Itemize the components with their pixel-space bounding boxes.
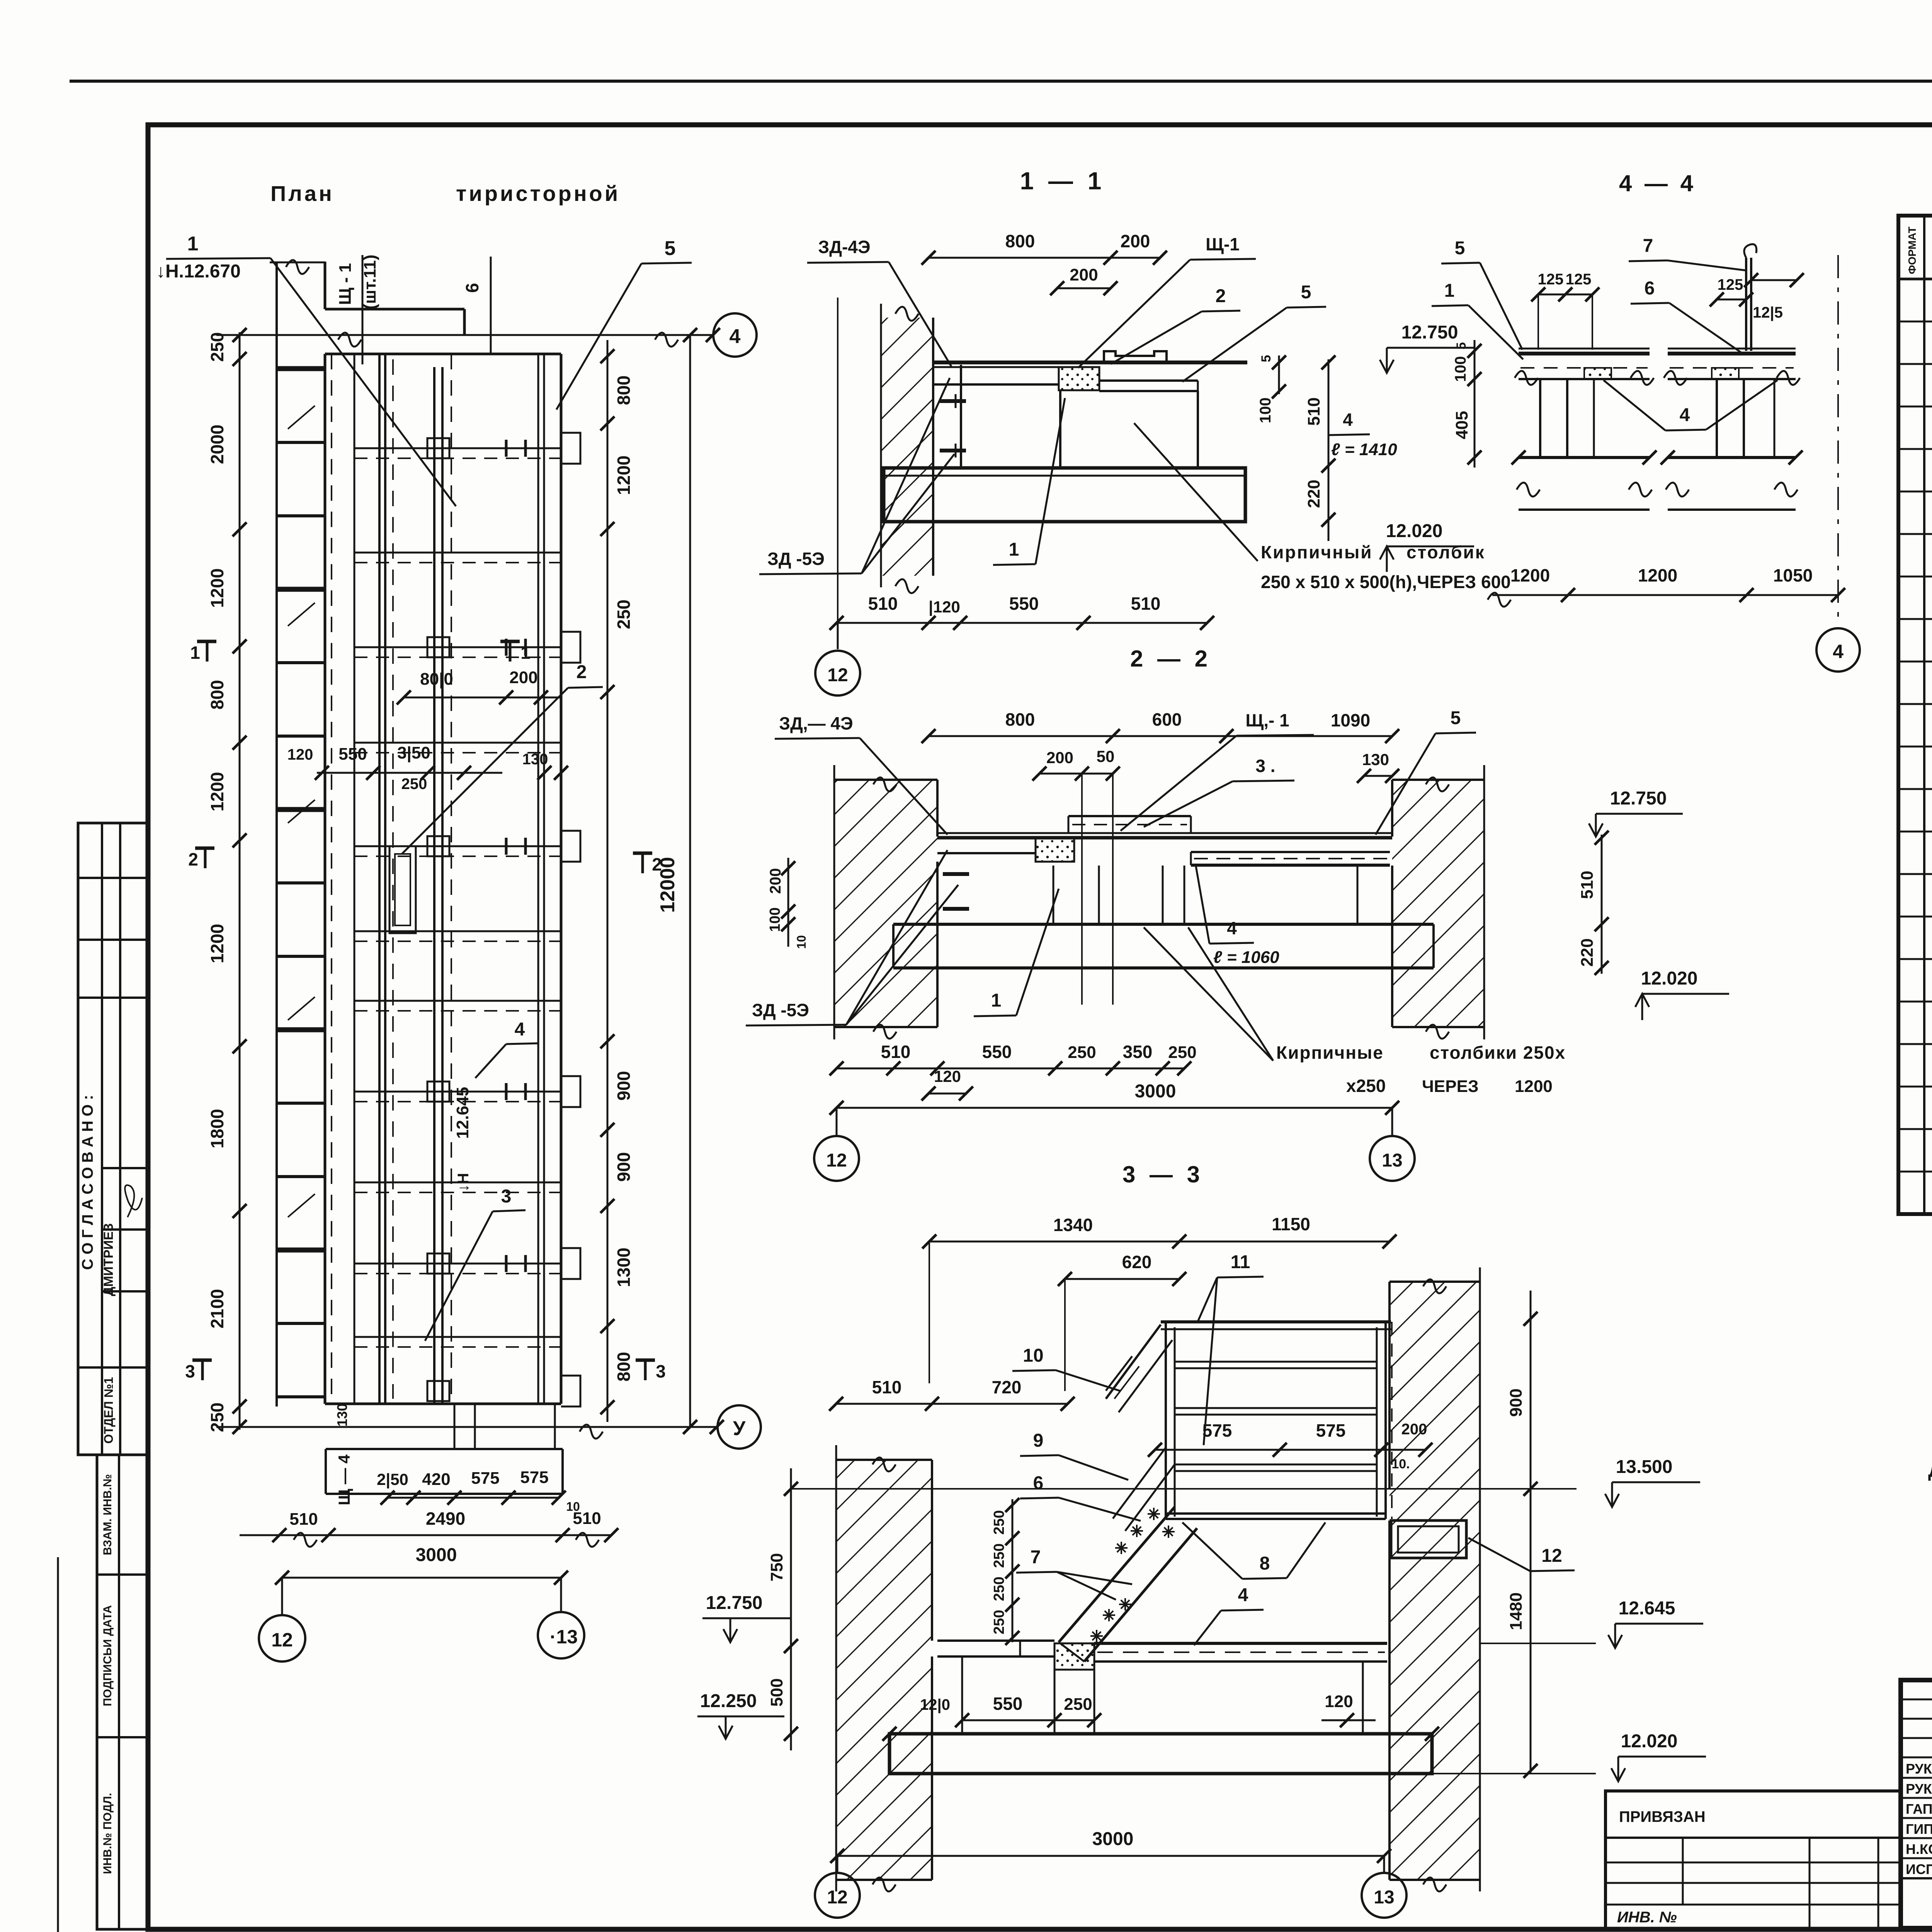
svg-text:ЗД -5Э: ЗД -5Э	[752, 1000, 809, 1020]
s11 posts	[960, 365, 962, 468]
svg-text:тиристорной: тиристорной	[456, 181, 620, 206]
s11 slab top chord	[933, 361, 1247, 364]
svg-text:12.645: 12.645	[1619, 1598, 1675, 1619]
svg-text:575: 575	[1202, 1420, 1232, 1440]
svg-text:2: 2	[1216, 286, 1226, 306]
svg-text:ОТДЕЛ №1: ОТДЕЛ №1	[102, 1377, 116, 1444]
svg-text:3 .: 3 .	[1255, 756, 1275, 776]
plan section mark 1-1 left	[197, 640, 216, 643]
svg-text:250: 250	[991, 1510, 1007, 1534]
svg-text:5: 5	[1301, 282, 1311, 303]
svg-text:13: 13	[1374, 1887, 1394, 1908]
s33 level line 12.645	[1480, 1643, 1596, 1644]
svg-text:|120: |120	[929, 598, 960, 616]
svg-text:125: 125	[1718, 276, 1743, 293]
svg-text:350: 350	[1123, 1042, 1153, 1062]
s11 top dims 800 200	[929, 257, 1160, 259]
s11 right dim chain A 5/100	[1278, 355, 1280, 394]
svg-text:4 — 4: 4 — 4	[1619, 170, 1696, 196]
s11 right dim chain B 510/220	[1328, 359, 1330, 541]
svg-text:ИНВ.№ ПОДЛ.: ИНВ.№ ПОДЛ.	[101, 1793, 114, 1874]
s33 long level line 13.500	[791, 1488, 1577, 1490]
svg-text:ДМИТРИЕЗ: ДМИТРИЕЗ	[101, 1223, 116, 1296]
svg-text:1: 1	[1444, 281, 1455, 301]
spec table row grid	[1898, 321, 1932, 323]
s33 inclined band main	[1059, 1507, 1175, 1642]
s22 foundation band	[893, 923, 1434, 926]
svg-text:510: 510	[881, 1042, 911, 1062]
svg-text:1200: 1200	[1638, 565, 1677, 585]
svg-text:10: 10	[1023, 1345, 1043, 1366]
svg-text:3: 3	[501, 1186, 512, 1207]
plan body inner vertical	[354, 354, 355, 1404]
svg-text:4: 4	[515, 1019, 525, 1040]
svg-text:Кирпичный: Кирпичный	[1261, 542, 1373, 562]
svg-text:600: 600	[1152, 709, 1182, 730]
svg-text:ПРИВЯЗАН: ПРИВЯЗАН	[1619, 1808, 1706, 1825]
svg-text:6: 6	[1033, 1473, 1044, 1493]
s33 step block	[1054, 1643, 1094, 1670]
plan right side stubs	[561, 433, 580, 464]
svg-text:800: 800	[1005, 231, 1035, 251]
svg-text:1: 1	[190, 643, 200, 663]
svg-text:510: 510	[1578, 871, 1597, 899]
svg-text:1340: 1340	[1053, 1215, 1093, 1235]
svg-text:·13: ·13	[550, 1626, 578, 1648]
svg-text:↓Н.12.670: ↓Н.12.670	[156, 261, 241, 282]
svg-text:500: 500	[767, 1678, 786, 1706]
svg-text:столбики 250х: столбики 250х	[1430, 1043, 1566, 1063]
svg-text:(шт.11): (шт.11)	[361, 255, 379, 310]
s33 shelf top cap	[1161, 1320, 1391, 1323]
svg-text:столбик: столбик	[1406, 542, 1485, 562]
s44 foundation band right	[1668, 456, 1796, 459]
plan body dashed line left	[331, 354, 332, 1404]
s33 bottom platform band element 4	[1094, 1642, 1387, 1645]
plan top-left dim break line	[270, 262, 325, 264]
svg-text:125: 125	[1566, 271, 1592, 288]
svg-text:12.020: 12.020	[1621, 1731, 1678, 1752]
svg-text:900: 900	[614, 1071, 634, 1101]
svg-text:12: 12	[1541, 1546, 1562, 1566]
svg-text:3|50: 3|50	[397, 743, 430, 763]
plan axis U line (bottom)	[216, 1426, 717, 1428]
svg-text:4: 4	[1238, 1585, 1248, 1605]
svg-text:2000: 2000	[207, 425, 227, 464]
s11 bottom dim chain	[837, 622, 1207, 624]
svg-text:6: 6	[1645, 278, 1655, 299]
s44 plate element 7	[1745, 258, 1747, 351]
svg-text:1480: 1480	[1507, 1592, 1526, 1630]
svg-text:7: 7	[1643, 236, 1653, 256]
s22 axis circle 13	[1391, 1108, 1393, 1135]
s11 foundation beam	[884, 468, 1245, 522]
svg-text:1: 1	[187, 233, 199, 255]
s22 deck element 4 band	[1191, 851, 1390, 853]
plan section mark 2-2 right	[633, 852, 652, 855]
s33 inclined rail mid	[1113, 1447, 1166, 1519]
privyazan table	[1605, 1791, 1901, 1929]
svg-text:2|50: 2|50	[377, 1470, 408, 1489]
svg-text:420: 420	[422, 1470, 450, 1489]
svg-text:4: 4	[730, 325, 741, 348]
plan wall ladder rungs	[277, 366, 325, 371]
s11 axis line left	[837, 298, 838, 623]
s33 axis circle 12	[837, 1856, 838, 1872]
svg-text:250: 250	[1068, 1043, 1096, 1062]
svg-text:12: 12	[827, 1887, 847, 1908]
svg-text:550: 550	[1009, 594, 1039, 614]
svg-text:4: 4	[1343, 410, 1353, 430]
svg-text:575: 575	[471, 1469, 499, 1488]
svg-text:3000: 3000	[416, 1545, 457, 1565]
s33 left dim chain 750 500	[790, 1468, 792, 1750]
plan axis U circle	[718, 1405, 761, 1449]
s33 axis circle 13	[1383, 1856, 1385, 1872]
svg-text:1: 1	[520, 643, 531, 663]
spec table header row line	[1898, 278, 1932, 281]
plan body double wall	[378, 354, 381, 1404]
svg-text:3: 3	[185, 1361, 195, 1381]
s33 dim 3000	[837, 1855, 1384, 1857]
s11 deck element 4 right	[1099, 379, 1198, 382]
svg-text:510: 510	[1131, 594, 1161, 614]
svg-text:11: 11	[1231, 1252, 1250, 1272]
s33 ledge left	[937, 1639, 1054, 1642]
svg-text:250 х 510 х 500(h),ЧЕРЕЗ 600: 250 х 510 х 500(h),ЧЕРЕЗ 600	[1261, 572, 1511, 592]
s22 left rotated dims 200 100 10	[787, 858, 789, 947]
svg-text:250: 250	[1064, 1695, 1092, 1714]
svg-text:510: 510	[872, 1377, 902, 1397]
spec table column lines	[1923, 216, 1925, 1214]
s22 grout box	[1036, 838, 1074, 862]
plan body top edge	[325, 353, 561, 355]
plan label 6 rotated with line	[490, 257, 492, 354]
s33 top dims 1340 1150	[929, 1241, 1389, 1243]
s44 left dim chain 5/100/405	[1474, 340, 1476, 468]
svg-text:620: 620	[1122, 1252, 1152, 1272]
svg-text:510: 510	[868, 594, 898, 614]
svg-text:Н.КОНТР.: Н.КОНТР.	[1906, 1841, 1932, 1857]
s22 axis circle 12	[836, 1108, 838, 1135]
svg-text:Щ — 4: Щ — 4	[335, 1454, 353, 1505]
left stamp: soglasovano box	[78, 823, 148, 1455]
svg-text:100: 100	[1257, 398, 1274, 423]
svg-text:900: 900	[614, 1152, 634, 1182]
svg-text:12: 12	[826, 1150, 847, 1171]
plan right edge	[560, 354, 563, 1404]
svg-text:510: 510	[289, 1510, 318, 1529]
plan left dimension chain	[239, 332, 241, 1430]
s22 ZD element left	[937, 852, 1036, 854]
title block outer box	[1901, 1680, 1932, 1928]
plan bottom dim row 510 2490 510	[240, 1534, 611, 1536]
svg-text:1300: 1300	[614, 1248, 634, 1287]
s22 top dims 800 600 1090	[929, 735, 1392, 737]
plan right dimension chain	[607, 340, 609, 1422]
svg-text:800: 800	[1005, 709, 1035, 730]
svg-text:250: 250	[991, 1577, 1007, 1601]
s22 dim 130 right	[1364, 775, 1392, 777]
svg-text:12.250: 12.250	[700, 1691, 757, 1711]
s33 left rail small	[1106, 1356, 1132, 1391]
plan body bottom edge	[325, 1403, 561, 1405]
plan wall glazing diagonals	[288, 406, 315, 429]
s22 left wall hatch	[834, 780, 937, 1027]
svg-text:ЗД,— 4Э: ЗД,— 4Э	[779, 713, 853, 733]
svg-text:ЗД-4Э: ЗД-4Э	[818, 237, 870, 257]
s44 axis circle 4	[1816, 628, 1860, 672]
svg-text:250: 250	[207, 332, 227, 362]
svg-text:130: 130	[334, 1403, 350, 1427]
svg-text:3 — 3: 3 — 3	[1122, 1162, 1204, 1187]
svg-text:220: 220	[1304, 480, 1323, 508]
svg-text:2100: 2100	[207, 1289, 227, 1328]
svg-text:550: 550	[338, 745, 367, 764]
svg-text:ЗД -5Э: ЗД -5Э	[767, 549, 825, 569]
svg-text:250: 250	[991, 1610, 1007, 1634]
svg-text:10: 10	[794, 935, 808, 949]
svg-text:1200: 1200	[1510, 565, 1550, 585]
s22 right rotated dims 510 220	[1601, 835, 1603, 974]
s22 wall anchor bolts	[943, 872, 969, 876]
svg-text:3000: 3000	[1135, 1081, 1176, 1102]
svg-text:1200: 1200	[207, 772, 227, 811]
plan body left edge	[324, 354, 327, 1404]
svg-text:200: 200	[1401, 1421, 1427, 1438]
svg-text:12: 12	[827, 665, 848, 685]
svg-text:5: 5	[1259, 355, 1274, 362]
svg-text:План: План	[270, 181, 334, 206]
s33 rotated dims 250 x4	[1012, 1499, 1014, 1642]
svg-text:ℓ = 1410: ℓ = 1410	[1331, 440, 1397, 459]
svg-text:5: 5	[1451, 708, 1461, 728]
svg-text:Щ,- 1: Щ,- 1	[1245, 710, 1289, 730]
svg-text:405: 405	[1452, 411, 1471, 439]
plan axis circle 13	[560, 1578, 562, 1611]
svg-text:2: 2	[188, 849, 198, 869]
svg-text:1200: 1200	[614, 456, 634, 495]
spec table outer box	[1898, 216, 1932, 1214]
s33 posts	[961, 1656, 963, 1734]
svg-text:ГИП: ГИП	[1906, 1821, 1932, 1837]
plan left wall outer line	[276, 263, 278, 1406]
svg-text:130: 130	[1362, 750, 1389, 769]
s11 axis circle 12	[837, 623, 839, 649]
s22 bottom dim chain 510 550 250 350 250	[837, 1068, 1184, 1070]
svg-text:800: 800	[207, 680, 227, 710]
svg-text:3: 3	[656, 1361, 666, 1381]
svg-text:1 — 1: 1 — 1	[1020, 167, 1105, 195]
svg-text:5: 5	[1455, 238, 1465, 259]
svg-text:1090: 1090	[1331, 710, 1370, 730]
svg-text:250: 250	[207, 1403, 227, 1432]
s33 shelf bottom chord	[1166, 1512, 1386, 1515]
s33 shelf assembly right post	[1376, 1327, 1378, 1517]
svg-text:Щ-1: Щ-1	[1206, 234, 1240, 254]
title block left row lines	[1901, 1699, 1932, 1701]
svg-text:12.750: 12.750	[1610, 788, 1667, 809]
s44 dims 125 125	[1538, 294, 1592, 296]
left stamp: inv/podpis box	[97, 1455, 148, 1929]
svg-text:1150: 1150	[1272, 1214, 1310, 1234]
svg-text:250: 250	[614, 600, 634, 629]
svg-text:575: 575	[1316, 1420, 1346, 1440]
plan axis 4 line (top)	[216, 334, 713, 336]
plan axis circle 12	[281, 1578, 283, 1614]
s33 shelf lines	[1175, 1361, 1377, 1363]
svg-text:12|0: 12|0	[920, 1696, 950, 1713]
svg-text:ГАП: ГАП	[1906, 1801, 1932, 1817]
plan axis 4 circle	[713, 313, 757, 357]
s33 incline stars	[1131, 1530, 1143, 1532]
sheet outer border left (partial)	[57, 1557, 59, 1932]
s11 Sch-1 grout box	[1059, 367, 1099, 390]
s44 slab right segment	[1668, 348, 1796, 350]
s44 plate top angle 125 dim	[1751, 279, 1797, 281]
s44 bottom dim 1200 1200 1050	[1492, 594, 1838, 596]
svg-text:750: 750	[767, 1553, 786, 1581]
s22 slab top chord	[937, 832, 1392, 834]
svg-text:120: 120	[287, 746, 313, 763]
s33 foundation slab	[889, 1734, 1432, 1774]
plan section mark 3-3 left	[192, 1359, 212, 1362]
svg-text:8: 8	[1260, 1553, 1270, 1574]
s33 dims 575 575 200 10	[1155, 1449, 1425, 1451]
svg-text:↓Н: ↓Н	[455, 1173, 472, 1192]
svg-text:4: 4	[1227, 918, 1237, 938]
plan bottom dim row 3000	[282, 1577, 561, 1579]
plan small detail rect (panel 2)	[389, 846, 416, 933]
s33 right wall hatch	[1389, 1282, 1480, 1880]
svg-text:1200: 1200	[207, 924, 227, 963]
svg-text:900: 900	[1507, 1388, 1526, 1417]
plan interior dim 800/200	[404, 697, 561, 699]
s33 dim 620	[1065, 1278, 1179, 1280]
s44 foundation band left	[1519, 456, 1650, 459]
plan overall 12000 dim	[689, 335, 691, 1427]
plan Sch-1 label leader line	[362, 255, 364, 364]
svg-text:12.020: 12.020	[1641, 968, 1698, 989]
svg-text:550: 550	[982, 1042, 1012, 1062]
plan inner column lines right	[537, 354, 539, 1404]
svg-text:575: 575	[520, 1468, 548, 1487]
svg-text:10.: 10.	[1391, 1457, 1410, 1471]
plan body dashed center	[392, 359, 394, 1399]
svg-text:220: 220	[1578, 938, 1597, 966]
svg-text:2490: 2490	[426, 1509, 465, 1529]
s33 dims 510 720	[836, 1403, 1068, 1405]
svg-text:13.500: 13.500	[1616, 1457, 1673, 1477]
svg-text:80|0: 80|0	[420, 670, 453, 689]
svg-text:12|5: 12|5	[1753, 304, 1783, 321]
svg-text:550: 550	[993, 1694, 1023, 1714]
svg-text:120: 120	[934, 1067, 961, 1085]
plan section mark 2-2 left	[195, 847, 214, 850]
svg-text:1200: 1200	[207, 568, 227, 608]
svg-text:Щ - 1: Щ - 1	[336, 263, 355, 305]
svg-text:ВЗАМ. ИНВ.№: ВЗАМ. ИНВ.№	[101, 1474, 114, 1555]
plan dashed line right of column	[451, 354, 452, 1404]
svg-text:4: 4	[1833, 641, 1844, 662]
svg-text:200: 200	[1121, 231, 1150, 251]
plan central column	[433, 367, 435, 1403]
svg-text:800: 800	[614, 376, 634, 405]
s33 left wall hatch	[836, 1460, 932, 1880]
svg-text:3000: 3000	[1092, 1829, 1134, 1849]
svg-text:ЧЕРЕЗ: ЧЕРЕЗ	[1422, 1077, 1479, 1096]
svg-text:ℓ = 1060: ℓ = 1060	[1213, 948, 1279, 967]
plan interior rungs	[354, 447, 561, 449]
plan bottom dim row 250 420 575 575	[388, 1497, 559, 1499]
s33 shelf dashed edge	[1391, 1322, 1393, 1519]
plan bottom stub columns	[454, 1404, 456, 1449]
svg-text:125: 125	[1538, 271, 1564, 288]
s11 wall anchor bolts	[940, 399, 966, 403]
svg-text:1: 1	[1009, 539, 1019, 560]
s22 dim 3000	[837, 1107, 1392, 1109]
sheet outer border top	[70, 80, 1932, 83]
svg-text:12.020: 12.020	[1386, 521, 1443, 541]
svg-text:2 — 2: 2 — 2	[1130, 646, 1211, 672]
svg-text:200: 200	[767, 868, 784, 894]
s11 Sch-1 raised plank	[1104, 351, 1167, 362]
svg-text:12.645: 12.645	[453, 1087, 472, 1139]
s33 inclined stringer upper	[1106, 1325, 1161, 1399]
svg-text:120: 120	[1325, 1692, 1353, 1711]
svg-text:130: 130	[522, 751, 548, 768]
s22 posts	[1053, 866, 1054, 924]
s22 Sch-1 plank above	[1068, 815, 1191, 817]
plan bottom protrusion Sch-4	[325, 1449, 327, 1494]
svg-text:200: 200	[1046, 748, 1073, 767]
svg-text:У: У	[733, 1417, 746, 1440]
svg-text:13: 13	[1382, 1150, 1402, 1171]
svg-text:С О Г Л А С О В А Н О :: С О Г Л А С О В А Н О :	[79, 1095, 96, 1270]
svg-text:510: 510	[573, 1509, 601, 1528]
svg-text:200: 200	[509, 668, 537, 687]
svg-text:12: 12	[271, 1629, 293, 1651]
svg-text:12000: 12000	[656, 857, 679, 913]
plan top bracket	[324, 262, 327, 309]
s11 ZD element under slab left	[933, 383, 1059, 386]
svg-text:РУК.КБ-1: РУК.КБ-1	[1906, 1781, 1932, 1797]
svg-text:Данный: Данный	[1928, 1459, 1932, 1481]
svg-text:х250: х250	[1346, 1076, 1386, 1096]
svg-text:ПОДПИСЬИ ДАТА: ПОДПИСЬИ ДАТА	[101, 1605, 114, 1706]
s22 dims 200 50	[1039, 773, 1113, 775]
svg-text:7: 7	[1031, 1547, 1041, 1568]
s44 grout pockets	[1584, 368, 1611, 379]
s44 axis line dashed	[1837, 255, 1839, 626]
svg-text:ИНВ. №: ИНВ. №	[1617, 1909, 1677, 1926]
svg-text:100: 100	[1452, 356, 1469, 382]
svg-text:6: 6	[462, 283, 482, 293]
svg-text:250: 250	[1168, 1043, 1196, 1062]
svg-text:5: 5	[1454, 342, 1469, 350]
plan section mark 1-1 right	[500, 640, 520, 643]
svg-text:ФОРМАТ: ФОРМАТ	[1906, 226, 1918, 274]
s44 slab left segment	[1519, 348, 1650, 350]
svg-text:1050: 1050	[1773, 565, 1813, 585]
s33 right dim chain 900 1480	[1530, 1291, 1532, 1774]
svg-text:9: 9	[1033, 1430, 1044, 1451]
s22 right wall hatch	[1392, 780, 1484, 1027]
s33 level line 12.020	[1432, 1773, 1596, 1774]
svg-text:200: 200	[1070, 265, 1098, 284]
svg-text:12.750: 12.750	[1401, 322, 1458, 343]
s33 shelf assembly left post	[1165, 1322, 1167, 1519]
